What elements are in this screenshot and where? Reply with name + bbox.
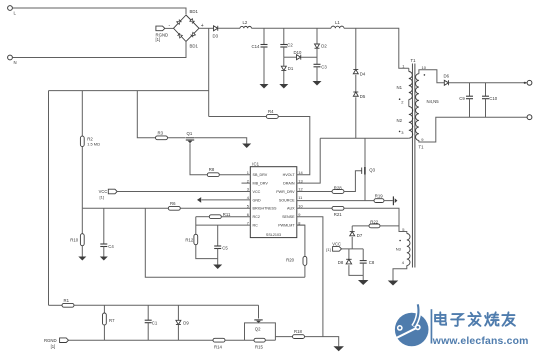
svg-text:N3: N3 <box>396 247 402 252</box>
svg-text:PWR_DRV: PWR_DRV <box>276 190 295 194</box>
wire Q3 source <box>364 175 366 201</box>
svg-text:8: 8 <box>298 220 300 225</box>
capacitor C8 <box>362 249 364 261</box>
wire HVOLT R4 branch <box>209 116 267 118</box>
wire pin10 AUX <box>297 207 332 209</box>
wire VCC to pin3 <box>117 191 250 193</box>
svg-text:7: 7 <box>247 220 249 225</box>
transistor Q1 <box>186 137 194 139</box>
watermark logo elecfans <box>395 304 432 347</box>
ground N3 <box>388 281 399 286</box>
wire pin11 SOURCE <box>297 200 374 202</box>
svg-text:C5: C5 <box>222 246 228 251</box>
ground Q1 drain <box>242 144 251 149</box>
wire R12 vertical <box>195 217 197 235</box>
T1 primary winding N2 <box>408 100 410 107</box>
wire D5 to drain net <box>355 97 357 138</box>
wire left drop to R1 <box>48 91 50 306</box>
wire Q1 drain right to gnd <box>194 138 247 144</box>
ground C3 <box>313 81 322 86</box>
watermark chinese text dian zi fa shao you (drawn strokes) <box>435 312 446 324</box>
svg-text:D9: D9 <box>183 321 189 326</box>
svg-text:2: 2 <box>247 178 249 183</box>
wire R1 row <box>74 304 259 306</box>
resistor R15 <box>254 338 265 342</box>
diode D7 zener <box>351 226 353 232</box>
capacitor C3 <box>314 63 321 65</box>
wire L2 to L1 <box>252 27 332 29</box>
transistor Q3 <box>361 168 363 174</box>
svg-text:D7: D7 <box>357 233 363 238</box>
diode D3 <box>214 26 218 31</box>
T1 secondary winding N4,N5 <box>416 74 419 141</box>
wire D8 bottom <box>349 265 363 275</box>
svg-text:T1: T1 <box>419 145 425 150</box>
diode D1 <box>283 57 285 66</box>
svg-text:11: 11 <box>298 195 302 200</box>
wire R22 to aux net <box>380 225 399 227</box>
wire pin8 PWMLMT <box>297 224 305 226</box>
resistor R28 <box>297 191 332 193</box>
resistor R3 <box>156 136 168 140</box>
svg-text:[1]: [1] <box>51 344 56 349</box>
svg-text:GND: GND <box>253 198 262 202</box>
resistor R1 <box>49 304 63 306</box>
wire D4 branch <box>355 28 357 69</box>
resistor R19 <box>374 199 384 203</box>
resistor R21 <box>332 206 344 210</box>
resistor R10 <box>81 208 83 233</box>
svg-text:Q1: Q1 <box>187 131 193 136</box>
svg-text:R28: R28 <box>334 185 342 190</box>
wire box to R18 <box>275 336 292 338</box>
svg-text:R18: R18 <box>294 329 302 334</box>
wire bus drop to R20 row <box>145 208 305 277</box>
wire Q2 top <box>258 305 260 318</box>
svg-text:D4: D4 <box>360 72 366 77</box>
wire D2 branch <box>316 28 318 44</box>
wire D3 to L2 <box>218 27 240 29</box>
resistor R18 <box>293 335 305 339</box>
wire Q2 box <box>258 322 260 324</box>
svg-text:D2: D2 <box>321 44 327 49</box>
wire R3 feed <box>137 91 155 138</box>
ground R10 <box>78 257 86 261</box>
capacitor C2 <box>280 44 287 46</box>
wire pin4 GND stub <box>202 199 251 201</box>
svg-text:SB_DRV: SB_DRV <box>253 173 268 177</box>
capacitor C4 <box>103 208 105 244</box>
net tag RGND top <box>156 26 165 31</box>
inductor L2 <box>240 26 252 28</box>
ground pin4 <box>197 197 201 203</box>
wire RGND tag to bridge <box>165 27 174 29</box>
svg-text:BD1: BD1 <box>190 44 199 49</box>
T1 aux winding N3 <box>407 234 410 266</box>
wire R2 to bus <box>81 147 83 209</box>
svg-text:www.elecfans.com: www.elecfans.com <box>432 336 529 347</box>
svg-text:R3: R3 <box>158 130 164 135</box>
svg-text:N: N <box>14 60 17 65</box>
ground R18 row <box>333 346 344 351</box>
svg-text:BD1: BD1 <box>190 9 199 14</box>
wire R12 bottom <box>196 245 218 259</box>
wire D6 to output+ <box>449 82 527 84</box>
ground R19 sideways <box>392 196 394 205</box>
svg-text:R1: R1 <box>64 298 70 303</box>
capacitor C9 <box>469 83 471 96</box>
resistor R20 <box>297 225 305 256</box>
ground C14 <box>260 84 269 89</box>
resistor R6 <box>168 206 180 210</box>
svg-text:C3: C3 <box>321 65 327 70</box>
wire L to bridge <box>12 8 186 15</box>
capacitor C1 <box>147 305 149 320</box>
svg-text:C4: C4 <box>108 244 114 249</box>
transformer T1 core <box>411 64 413 268</box>
svg-text:RC: RC <box>253 224 259 228</box>
svg-text:R19: R19 <box>375 193 383 198</box>
svg-text:RC2: RC2 <box>253 215 260 219</box>
wire R22 row <box>352 225 369 227</box>
ground C8 <box>358 280 369 285</box>
wire R4 to pin14 <box>278 117 310 175</box>
svg-text:Q2: Q2 <box>255 327 261 332</box>
svg-text:Q3: Q3 <box>369 167 375 172</box>
svg-text:VCC: VCC <box>99 189 108 194</box>
svg-text:SSL2103: SSL2103 <box>266 233 281 237</box>
bridge rectifier BD1 <box>169 9 204 49</box>
svg-text:DRAIN: DRAIN <box>283 182 295 186</box>
svg-text:1.5 MΩ: 1.5 MΩ <box>87 142 100 147</box>
wire C5 to ground <box>217 259 219 265</box>
svg-text:SOURCE: SOURCE <box>279 198 295 202</box>
svg-text:D10: D10 <box>294 50 302 55</box>
wire R18 to ground <box>305 337 339 347</box>
resistor R14 <box>213 338 225 342</box>
svg-text:HVOLT: HVOLT <box>283 173 296 177</box>
svg-text:C8: C8 <box>369 260 375 265</box>
resistor R22 <box>369 224 380 228</box>
wire drain net <box>320 137 409 139</box>
ground C4 <box>100 257 108 261</box>
wire N to bridge <box>12 42 186 58</box>
svg-text:6: 6 <box>247 212 249 217</box>
svg-text:IC1: IC1 <box>252 161 259 166</box>
output terminal - <box>527 115 532 120</box>
T1 primary winding N1 <box>408 68 410 71</box>
svg-text:MB_DRV: MB_DRV <box>253 182 269 186</box>
svg-text:AUX: AUX <box>287 207 295 211</box>
capacitor C5 <box>217 225 219 246</box>
resistor R7 <box>103 305 105 313</box>
svg-text:T1: T1 <box>411 58 417 63</box>
wire pin9 SENSE <box>297 217 323 337</box>
inductor L1 <box>331 26 344 28</box>
svg-text:C9: C9 <box>459 96 465 101</box>
wire T1 pin10 to D6 <box>419 70 444 83</box>
transistor Q2 <box>254 319 262 321</box>
wire R14 to R15 <box>225 339 254 341</box>
diode D9 <box>177 305 179 320</box>
wire R21 to N3 pin5 <box>344 208 407 233</box>
svg-text:5: 5 <box>247 204 249 209</box>
svg-text:9: 9 <box>298 212 300 217</box>
svg-text:D6: D6 <box>444 74 450 79</box>
terminal L <box>8 6 13 11</box>
wire C2 branch <box>283 28 285 44</box>
svg-text:N1: N1 <box>397 85 403 90</box>
wire R3 to Q1 <box>168 137 186 139</box>
op-amp IC1 SSL2103 <box>247 161 304 237</box>
svg-text:L2: L2 <box>243 20 248 25</box>
svg-text:13: 13 <box>298 178 302 183</box>
svg-text:D5: D5 <box>360 94 366 99</box>
svg-text:10: 10 <box>422 65 427 70</box>
svg-text:3: 3 <box>247 187 249 192</box>
svg-text:1: 1 <box>247 170 249 175</box>
svg-text:R2: R2 <box>87 136 93 141</box>
svg-text:R4: R4 <box>268 109 274 114</box>
svg-text:[1]: [1] <box>326 247 330 252</box>
wire R19 to ground <box>384 200 393 202</box>
svg-text:R22: R22 <box>370 219 378 224</box>
wire R11 to pin6 <box>221 216 250 218</box>
wire brightness bus <box>82 207 168 209</box>
resistor R11 <box>196 216 210 218</box>
net tag RGND bottom <box>60 338 69 343</box>
svg-text:C2: C2 <box>287 42 293 47</box>
svg-text:D8: D8 <box>338 260 344 265</box>
svg-text:R8: R8 <box>209 167 215 172</box>
wire D4 to D5 <box>355 75 357 92</box>
svg-text:R10: R10 <box>70 238 78 243</box>
svg-text:C14: C14 <box>252 44 260 49</box>
wire T1 pin9 to output- <box>419 117 527 142</box>
output terminal + <box>527 80 532 85</box>
wire Q3 drain <box>364 138 366 167</box>
svg-text:VCC: VCC <box>253 190 261 194</box>
diode D10 <box>284 56 297 58</box>
svg-text:D3: D3 <box>213 34 219 39</box>
svg-text:D1: D1 <box>288 66 294 71</box>
resistor R12 <box>194 234 198 244</box>
wire RGND rail <box>69 339 214 341</box>
resistor R2 1.5 MO <box>81 91 83 137</box>
net tag VCC aux <box>333 247 342 252</box>
resistor R8 <box>207 173 219 177</box>
diode D4 <box>353 69 358 71</box>
svg-text:R21: R21 <box>334 212 342 217</box>
svg-text:R7: R7 <box>109 318 115 323</box>
wire L1 to T1 pin1 <box>344 28 409 68</box>
wire Q1 down to R8 <box>190 143 207 175</box>
capacitor C14 <box>263 28 265 44</box>
svg-text:R20: R20 <box>286 257 294 262</box>
svg-text:R11: R11 <box>223 212 231 217</box>
svg-text:R12: R12 <box>185 237 193 242</box>
net tag VCC mid <box>108 189 117 194</box>
diode D5 <box>353 91 358 93</box>
wire R10 to ground <box>81 246 83 257</box>
svg-text:C10: C10 <box>489 96 497 101</box>
wire R6 to pin5 <box>180 207 250 209</box>
svg-text:SENSE: SENSE <box>282 215 295 219</box>
svg-text:BRIGHTNESS: BRIGHTNESS <box>253 207 278 211</box>
pin2 stub <box>242 182 251 184</box>
wire R15 to box right <box>265 339 275 341</box>
svg-text:R14: R14 <box>214 344 222 349</box>
svg-text:L1: L1 <box>335 20 340 25</box>
diode D8 zener <box>348 249 350 259</box>
svg-text:12: 12 <box>298 187 302 192</box>
wire R8 to pin1 <box>219 174 250 176</box>
resistor R4 <box>266 115 278 119</box>
wire RC pin7 <box>196 224 251 226</box>
capacitor C10 <box>485 83 487 96</box>
svg-text:VCC: VCC <box>332 241 341 246</box>
wire N3 pin4 to ground <box>393 266 407 281</box>
ground C5 <box>213 265 222 270</box>
node rectified+ drop <box>208 28 210 116</box>
svg-text:R15: R15 <box>255 344 263 349</box>
svg-text:R6: R6 <box>170 201 176 206</box>
wire bridge to D3 <box>199 27 214 29</box>
diode D6 <box>444 80 448 85</box>
svg-text:C1: C1 <box>152 320 158 325</box>
svg-text:N2: N2 <box>397 118 403 123</box>
diode D2 <box>315 44 320 48</box>
wire mid bus y90 <box>49 90 209 92</box>
svg-text:N4,N5: N4,N5 <box>427 99 440 104</box>
svg-text:[1]: [1] <box>156 37 161 42</box>
svg-text:PWMLMT: PWMLMT <box>278 224 295 228</box>
wire pin13 DRAIN <box>297 138 320 183</box>
wire R28 to Q3 gate <box>344 171 362 192</box>
ground D1 <box>279 84 288 89</box>
terminal N <box>8 55 13 60</box>
svg-text:[1]: [1] <box>100 195 104 200</box>
wire VCC to C8 <box>342 248 364 250</box>
svg-text:RGND: RGND <box>44 338 57 343</box>
